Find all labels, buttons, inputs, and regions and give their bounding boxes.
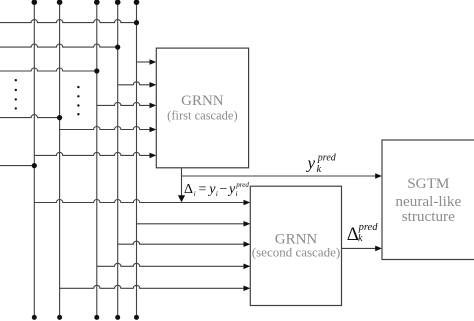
- svg-text:pred: pred: [358, 222, 379, 233]
- node junction row1-line5: [134, 20, 139, 25]
- svg-text:i: i: [216, 189, 218, 198]
- wire delta_k^pred line from second cascade to SGTM: [342, 247, 376, 249]
- svg-text:pred: pred: [317, 153, 337, 164]
- svg-text:structure: structure: [402, 208, 455, 225]
- arrowhead b3 into second cascade: [244, 241, 251, 247]
- node junction row2-line4: [115, 45, 120, 50]
- wire vertical input line 2: [59, 2, 61, 317]
- wire drop line from first cascade output: [181, 168, 183, 196]
- node junction row4-line2: [57, 115, 62, 120]
- node bottom terminal dot 4: [115, 315, 120, 320]
- node junction row5-line1: [32, 163, 37, 168]
- wire vertical input line 1: [33, 2, 35, 317]
- node bottom terminal dot 1: [32, 315, 37, 320]
- svg-text:(first cascade): (first cascade): [167, 108, 237, 122]
- wire row 5: [0, 165, 34, 167]
- box GRNN first cascade: [156, 48, 248, 168]
- svg-text:=: =: [199, 182, 207, 197]
- arrowhead a2 into first cascade: [150, 82, 157, 88]
- node bottom terminal dot 5: [134, 315, 139, 320]
- arrowhead b1 into second cascade: [244, 200, 251, 206]
- node junction row3-line3: [94, 68, 99, 73]
- label delta_k^pred: [347, 222, 378, 245]
- svg-text:k: k: [358, 233, 363, 244]
- arrowhead b5 into second cascade: [244, 286, 251, 292]
- node top terminal dot 5: [134, 0, 140, 5]
- arrowhead a5 into first cascade: [150, 153, 157, 159]
- arrowhead down from first cascade output: [178, 195, 185, 202]
- wire y_k^pred output line from junction to SGTM: [182, 175, 376, 177]
- arrowhead y_k^pred into SGTM: [375, 173, 382, 179]
- arrowhead a3 into first cascade: [150, 103, 157, 109]
- node top terminal dot 4: [115, 0, 121, 5]
- wire feed line a1 to first cascade: [137, 61, 150, 63]
- node top terminal dot 2: [57, 0, 63, 5]
- arrowhead a4 into first cascade: [150, 127, 157, 133]
- ellipsis left column: [15, 79, 17, 110]
- wire feed line a3 to first cascade: [97, 102, 150, 105]
- svg-text:i: i: [194, 189, 196, 198]
- arrowhead delta_k^pred into SGTM: [375, 246, 382, 252]
- wire row 3 with hops: [0, 68, 97, 71]
- svg-text:pred: pred: [235, 181, 249, 189]
- svg-text:GRNN: GRNN: [181, 93, 224, 109]
- arrowhead b4 into second cascade: [244, 264, 251, 270]
- box SGTM neural-like structure: [382, 140, 474, 260]
- wire row 2 with hops: [0, 44, 118, 47]
- node bottom terminal dot 3: [94, 315, 99, 320]
- box GRNN second cascade: [250, 186, 341, 305]
- wire feed line b3 to second cascade: [118, 241, 244, 244]
- wire vertical input line 3: [96, 2, 98, 317]
- node bottom terminal dot 2: [57, 315, 62, 320]
- svg-text:(second cascade): (second cascade): [252, 244, 340, 259]
- wire feed line a4 to first cascade: [60, 127, 150, 130]
- svg-text:y: y: [306, 154, 316, 173]
- wire row 1 with hops: [0, 20, 137, 23]
- svg-text:i: i: [236, 189, 238, 198]
- wire feed line b1 to second cascade: [34, 200, 243, 203]
- wire feed line b4 to second cascade: [97, 263, 244, 266]
- wire feed line a5 to first cascade: [34, 152, 149, 155]
- svg-text:SGTM: SGTM: [407, 175, 450, 192]
- wire feed line b2 to second cascade: [137, 223, 244, 225]
- wire row 4 with hop: [0, 115, 60, 118]
- wire feed line b5 to second cascade: [60, 285, 244, 288]
- svg-text:Δ: Δ: [184, 182, 193, 197]
- wire feed line a2 to first cascade: [118, 82, 150, 85]
- wire vertical input line 4: [117, 2, 119, 317]
- label y_k^pred: [306, 153, 337, 175]
- svg-text:−: −: [220, 182, 228, 197]
- label delta_i = y_i - y_i^pred: [184, 181, 249, 198]
- node top terminal dot 3: [94, 0, 100, 5]
- node top terminal dot 1: [32, 0, 38, 5]
- wire vertical input line 5: [136, 2, 138, 317]
- svg-text:k: k: [317, 164, 322, 175]
- arrowhead b2 into second cascade: [244, 221, 251, 227]
- ellipsis middle column: [77, 86, 79, 116]
- arrowhead a1 into first cascade: [150, 59, 157, 65]
